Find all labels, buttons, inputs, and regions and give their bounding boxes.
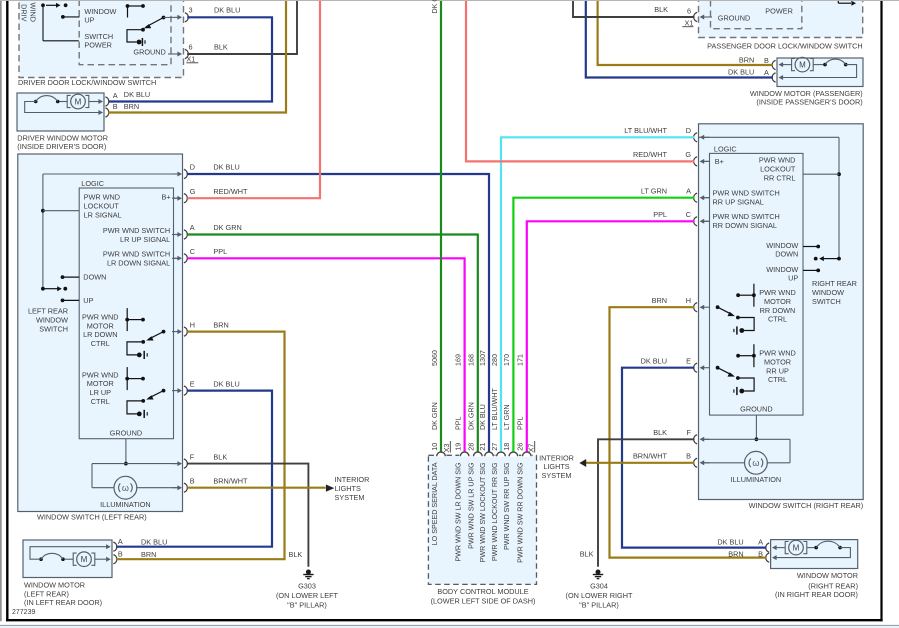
svg-text:DK BLU: DK BLU — [641, 356, 667, 365]
svg-text:GROUND: GROUND — [110, 428, 142, 437]
svg-text:PWR WND LOCKOUT RR SIG: PWR WND LOCKOUT RR SIG — [491, 462, 499, 561]
svg-text:PWR WND SW RR UP SIG: PWR WND SW RR UP SIG — [503, 462, 511, 550]
svg-text:(ON LOWER RIGHT: (ON LOWER RIGHT — [566, 591, 633, 600]
svg-text:SWITCH: SWITCH — [39, 325, 68, 334]
svg-text:PWR WND SW LR DOWN SIG: PWR WND SW LR DOWN SIG — [454, 462, 462, 562]
svg-text:G304: G304 — [590, 582, 608, 591]
svg-text:BRN: BRN — [124, 102, 139, 111]
svg-text:WINDOW: WINDOW — [812, 288, 844, 297]
svg-text:BLK: BLK — [654, 5, 668, 14]
svg-text:GROUND: GROUND — [740, 405, 772, 414]
svg-text:PWR WND SW LOCKOUT SIG: PWR WND SW LOCKOUT SIG — [479, 462, 487, 562]
svg-text:MOTOR: MOTOR — [87, 321, 114, 330]
svg-text:CTRL: CTRL — [91, 339, 110, 348]
svg-text:DK BLU: DK BLU — [124, 90, 150, 99]
svg-text:PPL: PPL — [517, 416, 525, 430]
svg-text:ω: ω — [752, 458, 759, 468]
svg-text:X7: X7 — [526, 444, 535, 453]
svg-text:168: 168 — [468, 354, 476, 366]
svg-text:LOCKOUT: LOCKOUT — [760, 165, 796, 174]
svg-text:X1: X1 — [186, 54, 195, 63]
svg-text:B: B — [764, 56, 769, 65]
svg-text:RR UP SIGNAL: RR UP SIGNAL — [713, 198, 764, 207]
svg-text:ω: ω — [122, 483, 129, 493]
svg-text:WINDOW MOTOR: WINDOW MOTOR — [24, 581, 85, 590]
svg-text:WINDOW MOTOR (PASSENGER): WINDOW MOTOR (PASSENGER) — [750, 89, 863, 98]
svg-text:LR UP SIGNAL: LR UP SIGNAL — [120, 235, 170, 244]
svg-text:M: M — [799, 60, 806, 69]
svg-text:21: 21 — [478, 443, 487, 451]
svg-text:WINDOW SWITCH (RIGHT REAR): WINDOW SWITCH (RIGHT REAR) — [749, 501, 864, 510]
svg-text:LR DOWN SIGNAL: LR DOWN SIGNAL — [107, 259, 170, 268]
svg-text:LR SIGNAL: LR SIGNAL — [84, 211, 122, 220]
svg-text:PWR WND: PWR WND — [82, 370, 118, 379]
svg-text:BLK: BLK — [213, 452, 227, 461]
svg-text:DOWN: DOWN — [83, 273, 106, 282]
svg-text:RED/WHT: RED/WHT — [633, 150, 668, 159]
svg-text:LR UP: LR UP — [90, 388, 112, 397]
svg-text:WINDOW MOTOR: WINDOW MOTOR — [797, 571, 858, 580]
svg-text:171: 171 — [517, 354, 525, 366]
svg-text:SWITCH: SWITCH — [812, 297, 841, 306]
svg-text:"B" PILLAR): "B" PILLAR) — [579, 601, 619, 610]
svg-text:BRN/WHT: BRN/WHT — [213, 476, 248, 485]
svg-text:DK BLU: DK BLU — [717, 537, 743, 546]
svg-text:X3: X3 — [442, 444, 451, 453]
svg-text:LT GRN: LT GRN — [641, 186, 667, 195]
svg-text:GROUND: GROUND — [133, 48, 165, 57]
svg-text:LT BLU/WHT: LT BLU/WHT — [491, 388, 499, 430]
svg-text:D: D — [190, 163, 195, 172]
svg-text:PWR WND: PWR WND — [82, 313, 118, 322]
svg-text:ILLUMINATION: ILLUMINATION — [731, 475, 782, 484]
svg-text:CTRL: CTRL — [768, 315, 787, 324]
svg-text:170: 170 — [503, 354, 511, 366]
svg-text:B: B — [758, 549, 763, 558]
svg-text:X1: X1 — [684, 18, 693, 27]
svg-text:SYSTEM: SYSTEM — [335, 493, 365, 502]
svg-text:E: E — [190, 379, 195, 388]
svg-text:A: A — [758, 537, 763, 546]
svg-text:(INSIDE DRIVER'S DOOR): (INSIDE DRIVER'S DOOR) — [17, 142, 106, 151]
svg-text:GROUND: GROUND — [718, 14, 750, 23]
svg-text:PWR WND: PWR WND — [759, 349, 795, 358]
svg-text:LOCKOUT: LOCKOUT — [84, 202, 120, 211]
svg-text:(RIGHT REAR): (RIGHT REAR) — [808, 581, 858, 590]
svg-text:BRN/WHT: BRN/WHT — [633, 452, 668, 461]
svg-text:SYSTEM: SYSTEM — [541, 471, 571, 480]
svg-text:A: A — [764, 68, 769, 77]
svg-text:MOTOR: MOTOR — [764, 358, 791, 367]
svg-text:(ON LOWER LEFT: (ON LOWER LEFT — [276, 591, 339, 600]
svg-text:A: A — [190, 223, 195, 232]
svg-text:PWR WND SWITCH: PWR WND SWITCH — [103, 250, 170, 259]
svg-text:BRN: BRN — [652, 296, 667, 305]
svg-text:(LEFT REAR): (LEFT REAR) — [24, 589, 69, 598]
svg-text:PWR WND SWITCH: PWR WND SWITCH — [713, 189, 780, 198]
svg-text:DK BLU: DK BLU — [141, 537, 167, 546]
svg-text:WINDOW SWITCH (LEFT REAR): WINDOW SWITCH (LEFT REAR) — [37, 512, 147, 521]
svg-text:B+: B+ — [715, 157, 724, 166]
svg-text:BRN: BRN — [213, 320, 228, 329]
svg-text:DRIVER DOOR LOCK/WINDOW SWITCH: DRIVER DOOR LOCK/WINDOW SWITCH — [18, 78, 156, 87]
svg-text:PASSENGER DOOR LOCK/WINDOW SWI: PASSENGER DOOR LOCK/WINDOW SWITCH — [707, 42, 863, 51]
svg-text:DK GRN: DK GRN — [431, 0, 439, 14]
svg-text:(INSIDE PASSENGER'S DOOR): (INSIDE PASSENGER'S DOOR) — [756, 98, 862, 107]
svg-text:PPL: PPL — [213, 247, 227, 256]
svg-text:LIGHTS: LIGHTS — [335, 484, 361, 493]
svg-text:RED/WHT: RED/WHT — [213, 187, 248, 196]
svg-text:DK GRN: DK GRN — [431, 402, 439, 430]
svg-text:B: B — [118, 550, 123, 559]
svg-text:D: D — [686, 126, 691, 135]
svg-text:B: B — [686, 452, 691, 461]
svg-text:RR CTRL: RR CTRL — [764, 174, 796, 183]
svg-text:WIND: WIND — [29, 3, 38, 22]
svg-text:RR DOWN SIGNAL: RR DOWN SIGNAL — [713, 221, 777, 230]
svg-text:18: 18 — [502, 443, 511, 451]
svg-text:A: A — [113, 91, 118, 100]
svg-text:LT BLU/WHT: LT BLU/WHT — [624, 126, 667, 135]
svg-text:G: G — [685, 150, 691, 159]
svg-text:BLK: BLK — [214, 42, 228, 51]
svg-text:LOGIC: LOGIC — [714, 144, 737, 153]
svg-text:ILLUMINATION: ILLUMINATION — [100, 500, 151, 509]
svg-text:M: M — [793, 543, 800, 552]
svg-text:10: 10 — [430, 443, 439, 451]
svg-text:277239: 277239 — [12, 609, 35, 616]
svg-text:MOTOR: MOTOR — [764, 297, 791, 306]
svg-text:E: E — [686, 356, 691, 365]
svg-text:DRIVER WINDOW MOTOR: DRIVER WINDOW MOTOR — [17, 133, 108, 142]
svg-text:28: 28 — [467, 443, 476, 451]
svg-text:RR DOWN: RR DOWN — [760, 306, 796, 315]
svg-text:169: 169 — [454, 354, 462, 366]
svg-text:G: G — [190, 187, 196, 196]
svg-text:G303: G303 — [298, 582, 316, 591]
svg-text:UP: UP — [788, 274, 798, 283]
svg-text:DK BLU: DK BLU — [214, 5, 240, 14]
svg-text:M: M — [81, 555, 88, 564]
svg-text:CTRL: CTRL — [768, 375, 787, 384]
svg-text:F: F — [190, 452, 195, 461]
svg-text:PWR WND: PWR WND — [759, 288, 795, 297]
svg-text:H: H — [686, 296, 691, 305]
svg-text:B: B — [190, 476, 195, 485]
svg-text:UP: UP — [83, 296, 93, 305]
svg-text:BRN: BRN — [141, 550, 156, 559]
svg-text:(IN LEFT REAR DOOR): (IN LEFT REAR DOOR) — [24, 598, 102, 607]
svg-text:280: 280 — [491, 354, 499, 366]
svg-text:B: B — [113, 102, 118, 111]
svg-text:LO SPEED SERIAL DATA: LO SPEED SERIAL DATA — [431, 462, 439, 545]
svg-text:PWR WND SWITCH: PWR WND SWITCH — [103, 226, 170, 235]
svg-text:BLK: BLK — [653, 428, 667, 437]
svg-text:26: 26 — [516, 443, 525, 451]
svg-text:RR UP: RR UP — [766, 366, 789, 375]
svg-text:DK GRN: DK GRN — [468, 402, 476, 430]
svg-text:UP: UP — [84, 16, 94, 25]
svg-text:WINDOW: WINDOW — [36, 315, 68, 324]
svg-text:BRN: BRN — [739, 56, 754, 65]
svg-text:LEFT REAR: LEFT REAR — [28, 306, 68, 315]
svg-text:H: H — [190, 320, 195, 329]
svg-text:DOWN: DOWN — [775, 250, 798, 259]
svg-text:A: A — [686, 186, 691, 195]
svg-text:PPL: PPL — [454, 416, 462, 430]
svg-text:(IN RIGHT REAR DOOR): (IN RIGHT REAR DOOR) — [775, 590, 858, 599]
svg-text:PWR WND: PWR WND — [759, 156, 795, 165]
svg-text:LT GRN: LT GRN — [503, 404, 511, 430]
svg-text:DK BLU: DK BLU — [479, 404, 487, 430]
svg-text:POWER: POWER — [765, 6, 793, 15]
svg-text:M: M — [75, 97, 82, 106]
svg-text:DK BLU: DK BLU — [728, 68, 754, 77]
svg-text:(LOWER LEFT SIDE OF DASH): (LOWER LEFT SIDE OF DASH) — [431, 596, 536, 605]
svg-text:B+: B+ — [162, 193, 171, 202]
svg-text:CTRL: CTRL — [91, 397, 110, 406]
svg-text:6: 6 — [189, 43, 193, 52]
svg-text:DRIV: DRIV — [20, 4, 29, 22]
svg-text:19: 19 — [453, 443, 462, 451]
svg-text:C: C — [686, 210, 691, 219]
svg-text:C: C — [190, 247, 195, 256]
svg-text:MOTOR: MOTOR — [87, 379, 114, 388]
svg-text:A: A — [118, 537, 123, 546]
svg-text:BLK: BLK — [289, 550, 303, 559]
svg-text:BODY CONTROL MODULE: BODY CONTROL MODULE — [437, 587, 528, 596]
svg-text:5060: 5060 — [431, 350, 439, 366]
svg-text:3: 3 — [189, 5, 193, 14]
svg-text:BLK: BLK — [580, 550, 594, 559]
svg-text:DK GRN: DK GRN — [213, 223, 241, 232]
svg-text:PWR WND SWITCH: PWR WND SWITCH — [713, 212, 780, 221]
svg-text:LR DOWN: LR DOWN — [83, 330, 117, 339]
svg-text:DK BLU: DK BLU — [213, 379, 239, 388]
svg-text:PPL: PPL — [653, 210, 667, 219]
svg-text:INTERIOR: INTERIOR — [335, 475, 370, 484]
svg-text:"B" PILLAR): "B" PILLAR) — [287, 601, 327, 610]
svg-text:1307: 1307 — [479, 350, 487, 366]
svg-text:PWR WND SW RR DOWN SIG: PWR WND SW RR DOWN SIG — [517, 462, 525, 563]
svg-text:F: F — [687, 428, 692, 437]
svg-text:LOGIC: LOGIC — [81, 179, 104, 188]
svg-text:DK BLU: DK BLU — [213, 163, 239, 172]
svg-text:POWER: POWER — [84, 41, 112, 50]
svg-text:BRN: BRN — [728, 549, 743, 558]
svg-text:RIGHT REAR: RIGHT REAR — [812, 279, 857, 288]
svg-text:PWR WND: PWR WND — [84, 193, 120, 202]
svg-text:6: 6 — [687, 6, 691, 15]
svg-text:PWR WND SW LR UP SIG: PWR WND SW LR UP SIG — [468, 462, 476, 549]
svg-text:27: 27 — [490, 443, 499, 451]
